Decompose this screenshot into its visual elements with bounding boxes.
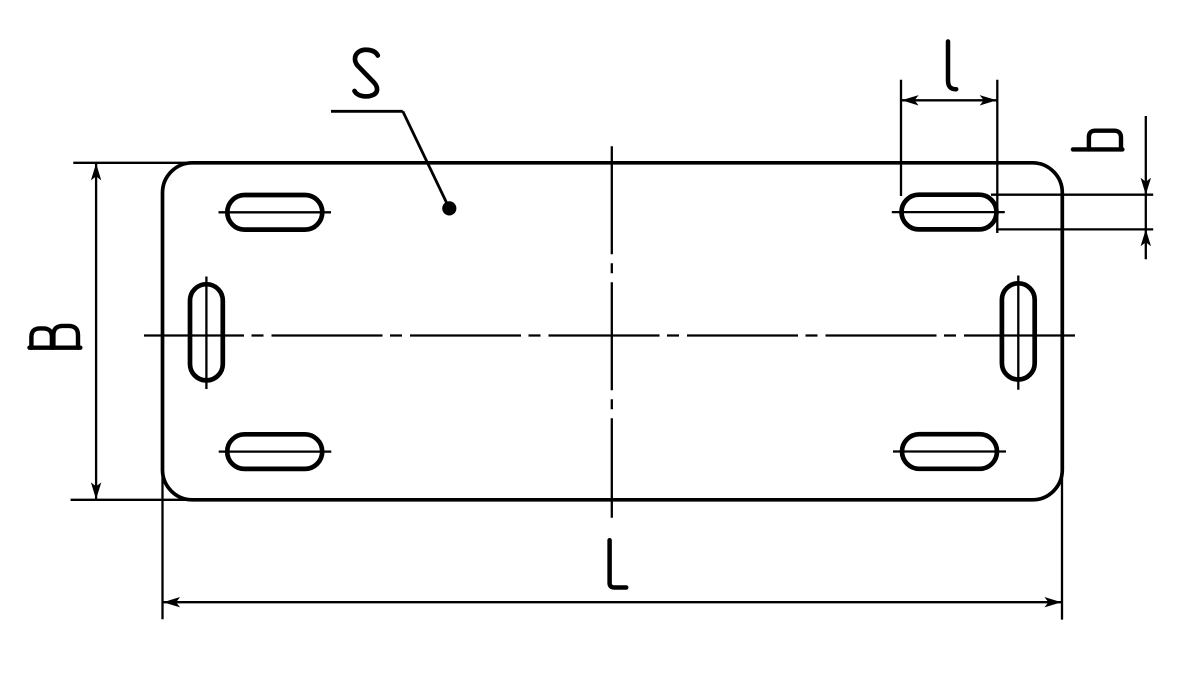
dimension l extension left [900,80,902,196]
dimension L extension left [161,468,163,619]
vertical centerline [611,146,613,518]
dimension b arrow down [1141,178,1151,195]
slot bottom-left [227,434,322,469]
slot top-right [902,195,997,230]
slot right-vertical centermark [1017,276,1019,390]
slot bottom-left centermark [219,450,332,452]
dimension L arrow left [163,597,180,607]
dimension b arrow up [1141,229,1151,246]
label b (rotated) [1073,131,1123,150]
slot left-vertical centermark [205,277,207,390]
dimension b extension bottom [996,228,1153,230]
label B (rotated) [30,326,81,348]
slot top-left centermark [219,211,332,213]
dimension B extension top [73,162,192,164]
dimension b extension top [991,194,1153,196]
dimension B extension bottom [71,499,193,501]
dimension b line [1145,116,1147,259]
dimension B arrow up [91,163,101,180]
dimension B line [95,164,97,500]
dimension L line [163,601,1062,603]
leader S underline [331,110,403,113]
dimension l arrow left [902,95,919,105]
dimension B arrow down [91,482,101,499]
dimension L arrow right [1044,597,1061,607]
slot left-vertical [190,284,223,380]
dimension L extension right [1061,466,1063,620]
label l [948,42,956,90]
plate outline [163,163,1063,500]
slot top-left [227,195,322,230]
label S [355,50,378,97]
slot bottom-right [902,434,997,469]
dimension l extension right [996,80,998,233]
horizontal centerline [144,334,1081,336]
dimension l line [902,99,997,101]
slot bottom-right centermark [893,450,1006,452]
slot right-vertical [1002,283,1035,379]
slot top-right centermark [892,211,1005,213]
leader S diagonal [403,111,450,208]
dimension l arrow right [980,95,997,105]
label L [610,540,627,587]
leader S dot [442,201,456,215]
